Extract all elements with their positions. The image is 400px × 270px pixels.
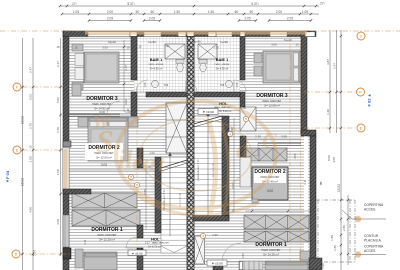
svg-text:2.05: 2.05 [107, 17, 113, 21]
svg-text:E: E [360, 126, 362, 130]
svg-text:PARD. PARCHET: PARD. PARCHET [92, 103, 112, 106]
svg-text:CONTUR: CONTUR [364, 234, 379, 238]
svg-text:▼F 04: ▼F 04 [5, 170, 10, 183]
svg-text:2: 2 [360, 34, 362, 38]
svg-text:1.60: 1.60 [326, 109, 330, 115]
svg-text:S= 12.20 m²: S= 12.20 m² [99, 237, 115, 241]
svg-text:2.47: 2.47 [333, 63, 337, 69]
svg-text:hp-90: hp-90 [193, 40, 201, 44]
svg-text:4.50: 4.50 [56, 219, 60, 225]
svg-text:3.95: 3.95 [281, 135, 287, 139]
svg-text:5.55: 5.55 [33, 250, 37, 256]
svg-text:2.70: 2.70 [56, 127, 60, 133]
svg-text:15: 15 [74, 46, 78, 50]
svg-text:3.00: 3.00 [267, 189, 273, 193]
svg-text:5.37¹: 5.37¹ [127, 2, 134, 6]
svg-text:4.11: 4.11 [303, 179, 307, 185]
svg-text:5.02: 5.02 [29, 94, 33, 100]
svg-text:2.05: 2.05 [149, 17, 155, 21]
svg-text:1.00: 1.00 [125, 110, 131, 114]
svg-text:2.05: 2.05 [244, 17, 250, 21]
svg-text:HOL: HOL [151, 237, 160, 242]
svg-text:F 02 ▲: F 02 ▲ [367, 93, 372, 106]
svg-text:1.52¹: 1.52¹ [56, 169, 60, 176]
svg-text:a: a [236, 135, 249, 164]
svg-text:2.00: 2.00 [107, 10, 113, 14]
svg-text:S= 6.72 m²: S= 6.72 m² [148, 245, 161, 249]
svg-text:1.30: 1.30 [213, 46, 219, 50]
svg-text:60: 60 [188, 46, 192, 50]
svg-text:PARD. GRESIE: PARD. GRESIE [149, 63, 164, 66]
svg-text:1.52¹: 1.52¹ [29, 156, 33, 163]
svg-text:S= 4.35 m²: S= 4.35 m² [216, 67, 229, 71]
svg-text:PARD. PARCHET: PARD. PARCHET [152, 242, 170, 245]
svg-text:2.30: 2.30 [255, 135, 261, 139]
svg-text:7.20: 7.20 [321, 263, 325, 269]
svg-text:1.50: 1.50 [174, 10, 180, 14]
svg-text:3.87: 3.87 [326, 59, 330, 65]
svg-text:13.92: 13.92 [21, 116, 25, 124]
svg-text:BAIE 1: BAIE 1 [150, 57, 163, 62]
svg-text:hp-90: hp-90 [220, 40, 228, 44]
svg-text:15: 15 [295, 43, 299, 47]
svg-text:2.47: 2.47 [56, 61, 60, 67]
svg-text:▼ ±3.00: ▼ ±3.00 [202, 110, 214, 114]
svg-text:1.05: 1.05 [73, 10, 79, 14]
svg-text:13.92: 13.92 [337, 184, 341, 192]
svg-text:.60: .60 [150, 10, 155, 14]
svg-text:W: W [92, 111, 111, 133]
svg-text:1.50: 1.50 [241, 253, 245, 259]
svg-text:2.05: 2.05 [287, 17, 293, 21]
svg-text:15: 15 [29, 145, 33, 149]
svg-text:hp-90: hp-90 [148, 40, 156, 44]
svg-text:1.05: 1.05 [302, 10, 308, 14]
svg-text:S= 12.08 m²: S= 12.08 m² [264, 103, 280, 107]
svg-text:4.50: 4.50 [29, 207, 33, 213]
svg-text:.27¹: .27¹ [319, 2, 325, 6]
svg-text:PLACA B.A.: PLACA B.A. [364, 239, 382, 243]
svg-text:1.05: 1.05 [235, 82, 239, 88]
svg-text:.27¹: .27¹ [71, 2, 77, 6]
svg-text:2.00: 2.00 [276, 10, 282, 14]
svg-text:17 x 17,6 / 30: 17 x 17,6 / 30 [180, 192, 182, 207]
svg-text:1.90: 1.90 [212, 233, 218, 237]
svg-text:5.02: 5.02 [56, 97, 60, 103]
svg-text:F: F [16, 85, 18, 89]
svg-text:▼ ±3.00: ▼ ±3.00 [132, 251, 143, 255]
svg-text:.50: .50 [135, 10, 140, 14]
svg-text:COPERTINA: COPERTINA [364, 203, 384, 207]
svg-text:2.80: 2.80 [342, 225, 346, 231]
svg-text:en: en [132, 150, 156, 176]
svg-text:1.50: 1.50 [208, 10, 214, 14]
svg-text:4.05: 4.05 [332, 157, 336, 163]
svg-text:13.92: 13.92 [21, 178, 25, 186]
svg-text:il: il [118, 145, 133, 174]
svg-text:1.90: 1.90 [164, 44, 170, 48]
svg-text:DORMITOR 1: DORMITOR 1 [91, 227, 123, 233]
svg-text:4.11: 4.11 [83, 239, 87, 245]
svg-text:1.55: 1.55 [330, 235, 334, 241]
svg-text:.50: .50 [249, 10, 254, 14]
svg-text:10: 10 [126, 46, 130, 50]
svg-text:PARD. GRESIE: PARD. GRESIE [215, 63, 230, 66]
svg-text:S= 5.10 m²: S= 5.10 m² [219, 110, 231, 113]
svg-text:1.55: 1.55 [333, 245, 337, 251]
svg-text:ACCES: ACCES [364, 208, 376, 212]
svg-text:2.47: 2.47 [29, 67, 33, 73]
svg-text:DORMITOR 1: DORMITOR 1 [255, 242, 287, 248]
svg-text:5.37¹: 5.37¹ [251, 2, 258, 6]
svg-text:15: 15 [319, 182, 323, 186]
svg-text:C: C [262, 128, 277, 153]
svg-text:▼ ±3.00: ▼ ±3.00 [211, 262, 223, 266]
svg-text:COPERTINA: COPERTINA [364, 245, 384, 249]
svg-text:hp-20: hp-20 [284, 38, 292, 42]
svg-text:4.50: 4.50 [231, 183, 235, 189]
svg-text:F: F [360, 90, 362, 94]
svg-text:1.05: 1.05 [143, 82, 147, 88]
svg-text:PARD. PARCHET: PARD. PARCHET [97, 234, 117, 237]
svg-text:T66: T66 [220, 84, 225, 87]
svg-text:ACCES: ACCES [364, 249, 376, 253]
svg-text:3.00: 3.00 [102, 46, 108, 50]
svg-text:hp-20: hp-20 [108, 40, 116, 44]
svg-text:PARD. PARCHET: PARD. PARCHET [262, 100, 282, 103]
svg-text:3.02: 3.02 [124, 99, 128, 105]
svg-text:balustrada inox h:90: balustrada inox h:90 [197, 159, 200, 180]
svg-text:.60: .60 [234, 10, 239, 14]
svg-text:3.00: 3.00 [101, 163, 107, 167]
svg-text:2.05: 2.05 [293, 153, 297, 159]
svg-text:2.17: 2.17 [145, 242, 150, 245]
svg-text:BAIE 1: BAIE 1 [216, 57, 229, 62]
svg-text:DORMITOR 3: DORMITOR 3 [256, 93, 288, 99]
svg-text:E: E [16, 148, 18, 152]
svg-text:8.00: 8.00 [327, 155, 331, 161]
svg-text:2.47: 2.47 [124, 65, 128, 71]
svg-text:2.70: 2.70 [29, 123, 33, 129]
svg-text:3.05: 3.05 [271, 43, 277, 47]
svg-text:PARD. PARCHET: PARD. PARCHET [261, 249, 281, 252]
svg-text:DORMITOR 3: DORMITOR 3 [86, 96, 118, 102]
svg-text:S= 14.26 m²: S= 14.26 m² [263, 252, 279, 256]
svg-text:T66: T66 [164, 84, 169, 87]
svg-text:S= 4.35 m²: S= 4.35 m² [150, 67, 163, 71]
